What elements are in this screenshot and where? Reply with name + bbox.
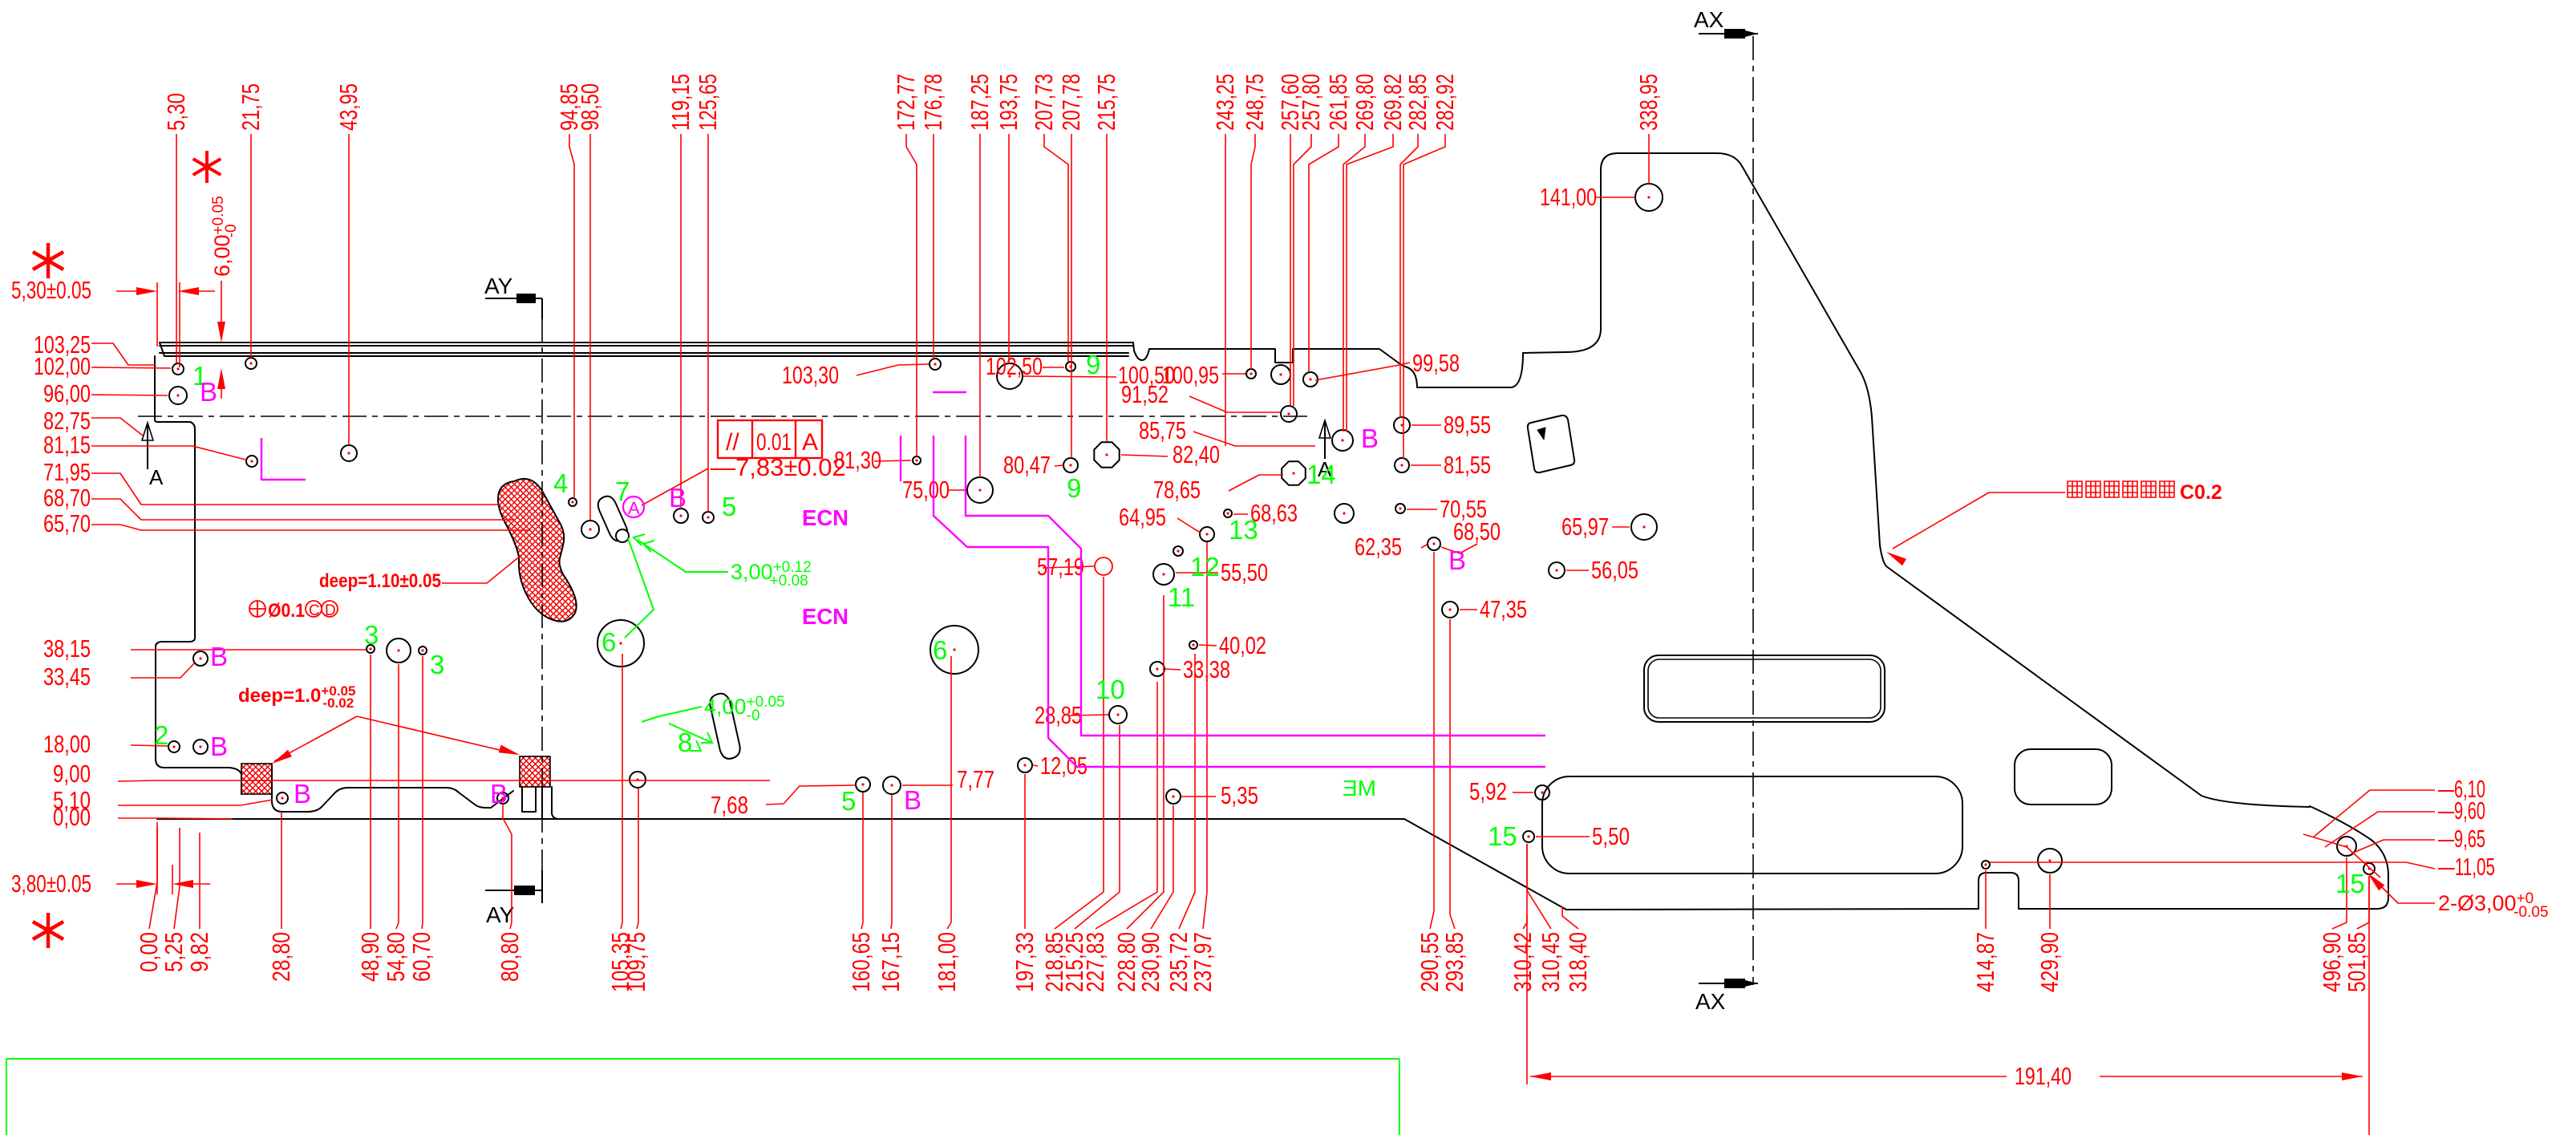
hole d B [1332,430,1353,451]
hole 12,05 [1018,758,1032,772]
green diagonal to circle6 [625,538,654,638]
svg-text:496,90: 496,90 [2318,932,2346,992]
hole 3b [419,647,427,655]
hole 21,75 [245,358,257,369]
hole 43,95 [341,445,357,461]
svg-text:81,15: 81,15 [43,431,91,459]
hole 68,50 sq [1428,537,1440,550]
hole 81,55 [1395,458,1409,472]
hole pocket B2 [497,792,508,804]
hole 81,30 diamond [913,456,921,464]
svg-text:deep=1.0+0.05-0.02: deep=1.0+0.05-0.02 [238,683,355,711]
bottom long slot [1542,776,1962,874]
hole 1 [172,363,184,375]
magenta path 1 [934,436,1545,767]
svg-text://: // [726,429,739,456]
svg-text:18,00: 18,00 [43,730,91,758]
svg-text:B: B [200,377,217,407]
svg-text:7,77: 7,77 [957,765,994,793]
svg-text:B: B [1448,545,1466,575]
svg-text:9,82: 9,82 [185,932,213,972]
red text near diagonal C0.2 (dense glyph boxes) [2068,481,2174,497]
svg-text:ECN: ECN [802,604,849,629]
svg-text:109,75: 109,75 [622,932,650,992]
small tilted capsule near 7 [598,497,628,541]
hatched bent slot (deep=1.10) [498,479,577,622]
mark inside tilted square [1537,428,1545,440]
svg-text:55,50: 55,50 [1221,558,1268,586]
svg-text:5,30±0.05: 5,30±0.05 [11,276,91,304]
svg-text:Ø0.1: Ø0.1 [268,600,305,622]
svg-text:ECN: ECN [802,505,849,530]
svg-text:C0.2: C0.2 [2180,481,2222,504]
svg-text:—9,65: —9,65 [2438,825,2485,853]
svg-text:338,95: 338,95 [1634,74,1663,131]
svg-text:33,38: 33,38 [1183,655,1230,683]
svg-text:100,95: 100,95 [1162,361,1219,389]
svg-text:56,05: 56,05 [1591,556,1638,584]
svg-text:6: 6 [933,635,947,665]
hole 82,40 octagon [1094,442,1119,467]
svg-text:5,35: 5,35 [1221,781,1258,809]
hole 81,15 [246,456,257,467]
hole 18,00 B [193,740,208,754]
hole 80,47 [1063,458,1078,472]
svg-text:269,80: 269,80 [1351,74,1379,131]
svg-text:60,70: 60,70 [407,932,435,982]
hole 109,75 [630,772,646,788]
hole 5,92 [1535,785,1549,800]
hole 3a [367,645,375,653]
svg-text:215,75: 215,75 [1092,74,1120,131]
svg-text:429,90: 429,90 [2035,932,2064,992]
svg-text:0,00: 0,00 [53,803,91,831]
svg-text:8: 8 [678,728,692,757]
svg-text:B: B [210,732,228,761]
svg-text:96,00: 96,00 [43,379,91,407]
svg-text:0.01: 0.01 [756,429,792,456]
hole 5,50 15 [1523,831,1534,842]
tilted square top right [1528,415,1574,472]
svg-text:5,92: 5,92 [1469,777,1507,805]
svg-text:71,95: 71,95 [43,458,91,486]
hole B 96,00 [169,387,187,404]
svg-text:—7,83±0.02: —7,83±0.02 [711,453,846,481]
hole b [1271,365,1290,384]
svg-text:12,05: 12,05 [1040,752,1088,780]
svg-text:47,35: 47,35 [1480,595,1527,623]
svg-text:237,97: 237,97 [1189,932,1217,992]
svg-text:A: A [628,498,640,518]
svg-text:28,80: 28,80 [267,932,295,982]
hole B bottom [883,776,901,794]
svg-text:261,85: 261,85 [1324,74,1352,131]
svg-text:48,90: 48,90 [356,932,384,982]
svg-text:deep=1.10±0.05: deep=1.10±0.05 [319,570,441,592]
svg-text:191,40: 191,40 [2015,1062,2072,1090]
hole 141,00 [1635,184,1663,211]
svg-text:4: 4 [553,468,568,498]
svg-text:160,65: 160,65 [847,932,875,992]
hole 102,50 big [997,363,1023,389]
pocket lower-left outline [241,766,513,812]
long red line y=973 9,00 row [157,780,770,781]
svg-text:125,65: 125,65 [694,74,722,131]
svg-text:269,82: 269,82 [1379,74,1407,131]
hole tiny12 [1173,546,1183,556]
svg-text:B: B [669,483,687,513]
svg-text:14: 14 [1306,460,1336,489]
svg-text:A: A [802,429,818,456]
svg-text:5,30: 5,30 [162,93,190,131]
svg-text:54,80: 54,80 [382,932,410,982]
hole 33,45 B [193,651,208,666]
pocket to AY step [542,787,559,819]
label 11,05 and long leader [1990,861,2406,863]
svg-text:5,50: 5,50 [1592,822,1630,850]
hole 64,95 [1200,527,1214,541]
svg-text:248,75: 248,75 [1241,74,1269,131]
svg-text:33,45: 33,45 [43,663,91,691]
star mark [33,243,63,278]
small circle below capsule [616,529,629,542]
svg-text:15: 15 [1488,821,1517,851]
hole 56,05 [1549,562,1565,578]
hole 99,58 [1303,372,1318,387]
svg-text:3,80±0.05: 3,80±0.05 [11,869,91,898]
hole 70,55 [1395,504,1405,513]
svg-text:6: 6 [601,627,616,657]
hole B 119,15 [674,509,688,523]
hole 89,55 [1394,417,1410,433]
svg-text:ME: ME [1343,776,1376,801]
bottom edge right [1404,819,2377,910]
svg-text:3: 3 [364,620,379,650]
svg-text:80,47: 80,47 [1003,451,1051,479]
svg-text:282,92: 282,92 [1431,74,1459,131]
green leader 3,00 [638,540,728,572]
svg-text:310,45: 310,45 [1537,932,1565,992]
svg-text:227,83: 227,83 [1081,932,1109,992]
rail strip top [160,343,1134,356]
hole 75,00 [967,477,993,503]
svg-text:D: D [325,602,336,619]
hole 65,97 [1631,514,1657,540]
svg-text:89,55: 89,55 [1444,411,1491,439]
star mark [193,151,221,183]
hole 414,87 [1982,861,1990,869]
magenta L shape left [261,438,306,480]
hole 103,30 [930,359,941,370]
slot 2 rounded rect [2015,749,2112,805]
hole c [1281,406,1297,422]
svg-text:11: 11 [1168,582,1195,612]
svg-text:12: 12 [1190,552,1220,582]
svg-text:75,00: 75,00 [902,476,950,504]
svg-text:43,95: 43,95 [334,83,363,131]
svg-text:290,55: 290,55 [1416,932,1444,992]
svg-text:78,65: 78,65 [1153,476,1201,504]
magenta dash mid [933,391,966,393]
svg-text:282,85: 282,85 [1403,74,1432,131]
svg-text:318,40: 318,40 [1564,932,1592,992]
datum AY dash-dot vertical [541,318,543,873]
hole 5 [703,512,714,523]
red cross lines at hole 15 [2303,834,2347,847]
svg-text:5: 5 [722,492,736,521]
hole 5 bottom [856,777,870,792]
green sheet border bottom-left [6,1058,1399,1060]
svg-text:AY: AY [486,902,515,927]
svg-text:293,85: 293,85 [1440,932,1468,992]
svg-text:187,25: 187,25 [966,74,994,131]
hole 6 a [597,620,644,667]
svg-text:243,25: 243,25 [1211,74,1239,131]
svg-text:310,42: 310,42 [1509,932,1537,992]
hole 100,95 [1246,369,1256,379]
svg-text:B: B [294,779,311,809]
svg-text:68,50: 68,50 [1453,517,1501,545]
svg-text:172,77: 172,77 [892,74,920,131]
svg-text:99,58: 99,58 [1412,349,1460,377]
datum A arrow middle [1324,423,1326,459]
pocket pedestal right [522,787,536,812]
svg-text:13: 13 [1229,515,1258,545]
hole 68,63 [1224,509,1232,517]
hole 496,90 [2337,837,2356,856]
svg-text:176,78: 176,78 [919,74,947,131]
svg-text:197,33: 197,33 [1011,932,1039,992]
svg-text:501,85: 501,85 [2343,932,2371,992]
hole 62,35 [1335,504,1354,523]
svg-text:119,15: 119,15 [666,74,695,131]
svg-text:C: C [309,602,320,619]
magenta vertical short [900,436,901,481]
hole 429,90 [2038,849,2062,873]
svg-text:230,90: 230,90 [1136,932,1164,992]
svg-text:5,25: 5,25 [160,932,188,972]
hole pocket B1 [277,792,288,804]
svg-text:7,68: 7,68 [711,791,748,819]
svg-text:9,00: 9,00 [53,760,91,788]
magenta circled A [623,497,644,517]
datum A arrow left [147,425,148,469]
hole 6 b [930,626,978,674]
centerline horizontal dash-dot [138,415,1312,417]
hole 10 [1109,706,1127,724]
svg-text:68,70: 68,70 [43,484,91,512]
hole 9 top [1066,362,1075,371]
red circle 57,19 [1095,557,1112,575]
svg-text:5: 5 [841,786,856,816]
hole 5,35 [1166,789,1181,804]
green leader 4,00 [642,707,702,722]
hole 3big [387,638,411,663]
svg-text:98,50: 98,50 [576,83,604,131]
svg-text:15: 15 [2335,869,2365,898]
svg-text:207,73: 207,73 [1030,74,1058,131]
red phi datum text left [249,601,338,617]
svg-text:91,52: 91,52 [1121,380,1169,408]
svg-text:65,97: 65,97 [1561,513,1609,541]
right nose [2310,806,2388,909]
hole 33,38 [1150,662,1164,676]
svg-text:193,75: 193,75 [994,74,1023,131]
svg-text:B: B [490,779,508,809]
svg-text:80,80: 80,80 [496,932,524,982]
svg-text:10: 10 [1096,675,1125,704]
svg-text:0,00: 0,00 [135,932,163,972]
svg-text:64,95: 64,95 [1119,503,1166,531]
svg-text:414,87: 414,87 [1971,932,1999,992]
svg-text:167,15: 167,15 [877,932,905,992]
svg-text:B: B [904,785,921,815]
tall section outline [1601,153,2310,807]
svg-text:B: B [210,642,228,671]
svg-text:207,78: 207,78 [1057,74,1085,131]
hole 14 octagon [1282,461,1306,485]
svg-text:9: 9 [1067,473,1081,503]
svg-text:3: 3 [430,650,444,679]
svg-text:—9,60: —9,60 [2438,797,2485,825]
hole 2 [168,741,180,752]
hole 501,85 [2363,863,2375,874]
star mark [33,913,63,948]
svg-text:102,00: 102,00 [34,352,91,380]
left outline upper body [155,356,241,774]
svg-text:81,55: 81,55 [1444,451,1491,479]
hole 47,35 [1442,602,1458,618]
svg-text:38,15: 38,15 [43,634,91,663]
svg-text:141,00: 141,00 [1540,183,1597,211]
svg-text:B: B [1361,424,1379,453]
svg-text:181,00: 181,00 [933,932,961,992]
svg-text:21,75: 21,75 [237,83,265,131]
bottom edge left [157,818,1404,820]
svg-text:A: A [149,465,164,489]
upper boundary of body [1134,329,1601,387]
svg-text:2: 2 [154,720,168,750]
svg-text:62,35: 62,35 [1355,533,1402,561]
B2 hole drop line [502,804,504,818]
svg-text:AY: AY [484,274,513,298]
hole 4 [569,498,577,506]
feature control frame // 0.01 A [718,420,822,458]
hole 7 [581,521,599,538]
datum AX dash-dot vertical [1752,36,1754,985]
magenta path 2 [966,436,1545,736]
svg-text:AX: AX [1694,7,1724,32]
hole 40,02 [1189,641,1197,649]
slot 1 rounded rect double [1644,655,1885,722]
svg-text:65,70: 65,70 [43,509,91,537]
hole 12 [1153,564,1174,585]
svg-text:82,40: 82,40 [1173,440,1220,468]
svg-text:103,30: 103,30 [782,361,839,389]
svg-text:9: 9 [1086,350,1100,379]
svg-text:AX: AX [1695,989,1726,1014]
tilted capsule 8 [710,694,739,759]
hatch block 1 [241,764,272,794]
dim 191,40 bottom right [1530,1076,2007,1077]
hatch block 2 [520,756,550,787]
svg-text:257,80: 257,80 [1297,74,1325,131]
svg-text:—11,05: —11,05 [2438,853,2495,881]
